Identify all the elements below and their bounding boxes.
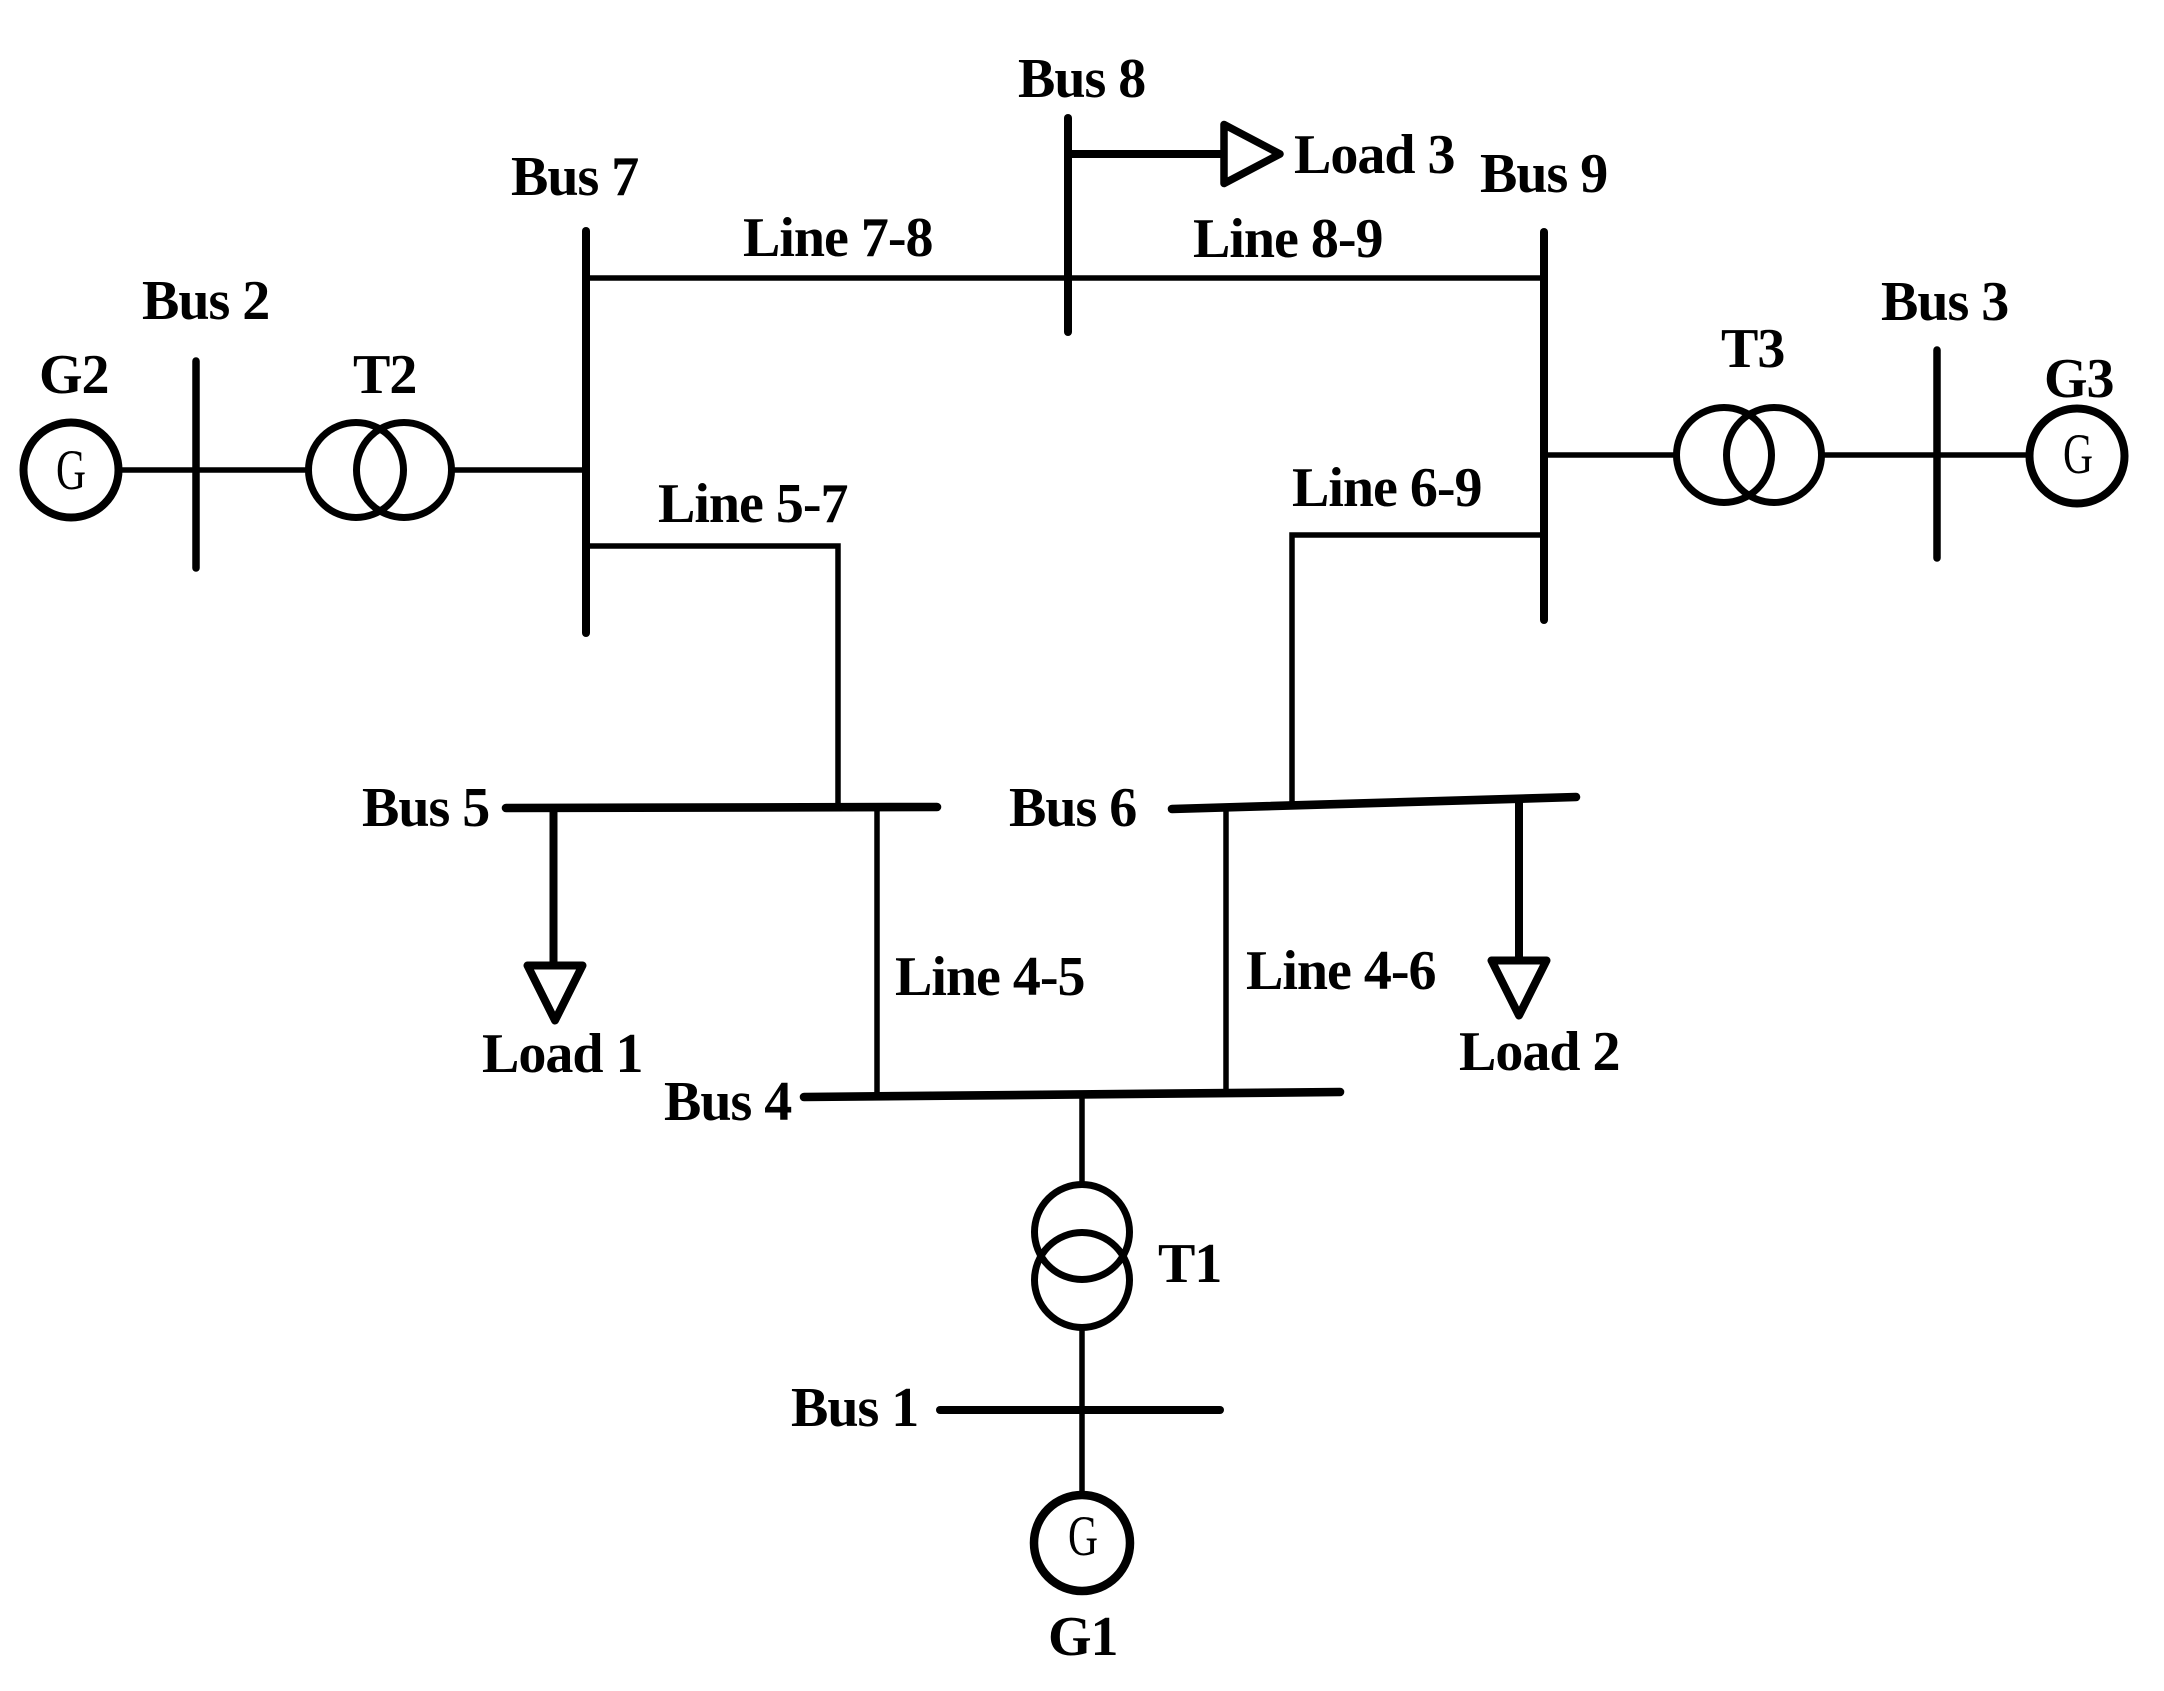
svg-text:G1: G1	[1048, 1606, 1118, 1668]
svg-text:Line 5-7: Line 5-7	[658, 473, 848, 535]
svg-text:G2: G2	[39, 344, 109, 406]
svg-text:T3: T3	[1721, 318, 1784, 380]
bus 1 bar	[940, 1406, 1220, 1414]
svg-text:G: G	[1068, 1505, 1098, 1568]
wire bus 4 to T1	[1079, 1094, 1085, 1186]
wire T3 to bus 3 to G3	[1820, 452, 2077, 458]
bus 9 bar	[1540, 232, 1548, 620]
wire Line 6-9	[1292, 535, 1544, 806]
load 3 feeder line	[1068, 150, 1224, 158]
wire T2 to bus 7	[450, 467, 586, 473]
svg-text:Line 7-8: Line 7-8	[743, 207, 933, 269]
bus 7 bar	[582, 231, 590, 633]
transformer T1 circle top	[1035, 1185, 1130, 1280]
wire bus 9 to T3	[1544, 452, 1678, 458]
svg-text:G: G	[2063, 423, 2093, 486]
wire Line 7-8	[586, 275, 1068, 281]
load 1 drop line	[550, 808, 558, 966]
load 2 drop line	[1515, 800, 1523, 961]
svg-text:G3: G3	[2044, 348, 2114, 410]
svg-text:Line 6-9: Line 6-9	[1292, 457, 1482, 519]
svg-text:Line 4-5: Line 4-5	[895, 946, 1085, 1008]
svg-text:T2: T2	[353, 344, 416, 406]
svg-text:Bus 5: Bus 5	[362, 777, 489, 839]
bus 4 bar	[804, 1092, 1340, 1097]
bus 5 bar	[506, 807, 937, 808]
transformer T3 circle right	[1727, 408, 1822, 503]
bus 6 bar	[1172, 797, 1576, 809]
svg-text:Bus 7: Bus 7	[511, 146, 638, 208]
transformer T1 circle bottom	[1035, 1233, 1130, 1328]
load 2 arrow	[1492, 961, 1547, 1016]
svg-text:Bus 2: Bus 2	[142, 270, 269, 332]
svg-text:Bus 1: Bus 1	[791, 1377, 918, 1439]
generator G2 circle	[24, 423, 119, 518]
svg-text:Bus 3: Bus 3	[1881, 271, 2008, 333]
svg-text:T1: T1	[1158, 1233, 1221, 1295]
bus 2 bar	[192, 361, 200, 568]
svg-text:Load 2: Load 2	[1459, 1021, 1620, 1083]
transformer T3 circle left	[1677, 408, 1772, 503]
generator G1 circle	[1034, 1495, 1130, 1591]
generator G3 circle	[2030, 409, 2125, 504]
svg-text:Line 4-6: Line 4-6	[1246, 940, 1436, 1002]
svg-text:Bus 6: Bus 6	[1009, 777, 1136, 839]
wire Line 4-5	[874, 807, 880, 1097]
svg-text:Bus 9: Bus 9	[1480, 143, 1607, 205]
svg-text:Bus 4: Bus 4	[664, 1071, 791, 1133]
svg-text:Bus 8: Bus 8	[1018, 48, 1145, 110]
load 3 arrow	[1224, 125, 1280, 184]
transformer T2 circle left	[309, 423, 404, 518]
svg-text:Load 3: Load 3	[1294, 124, 1455, 186]
wire Line 5-7	[586, 546, 838, 807]
wire T1 to bus 1 to G1	[1079, 1327, 1085, 1546]
bus 3 bar	[1933, 350, 1941, 558]
transformer T2 circle right	[357, 423, 452, 518]
wire Line 8-9	[1068, 275, 1544, 281]
wire Line 4-6	[1223, 807, 1229, 1095]
svg-text:Load 1: Load 1	[482, 1023, 643, 1085]
svg-text:Line 8-9: Line 8-9	[1193, 208, 1383, 270]
svg-text:G: G	[56, 439, 86, 502]
bus 8 bar	[1064, 118, 1072, 332]
wire G2 to T2	[71, 467, 310, 473]
load 1 arrow	[528, 966, 583, 1021]
